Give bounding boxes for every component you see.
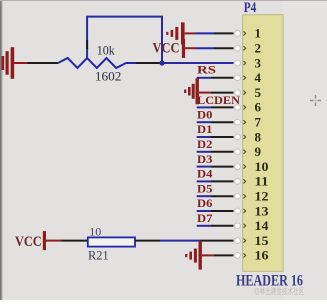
svg-text:12: 12 bbox=[255, 189, 269, 204]
svg-text:RS: RS bbox=[197, 65, 216, 77]
svg-text:P4: P4 bbox=[244, 0, 257, 16]
svg-text:5: 5 bbox=[255, 85, 262, 100]
svg-text:9: 9 bbox=[255, 144, 262, 159]
svg-text:LCDEN: LCDEN bbox=[197, 95, 241, 107]
svg-text:7: 7 bbox=[255, 115, 262, 130]
svg-text:10: 10 bbox=[255, 159, 269, 174]
svg-text:@林土建金技术社区: @林土建金技术社区 bbox=[254, 286, 304, 296]
svg-text:D0: D0 bbox=[197, 109, 213, 121]
svg-text:4: 4 bbox=[255, 70, 262, 85]
svg-text:D7: D7 bbox=[197, 213, 213, 225]
svg-text:VCC: VCC bbox=[153, 41, 180, 57]
svg-text:1602: 1602 bbox=[95, 69, 122, 84]
svg-text:10k: 10k bbox=[97, 44, 116, 58]
svg-text:D3: D3 bbox=[197, 154, 213, 166]
svg-text:8: 8 bbox=[255, 129, 262, 144]
svg-text:10: 10 bbox=[89, 224, 101, 238]
svg-text:3: 3 bbox=[255, 55, 262, 70]
svg-text:16: 16 bbox=[255, 248, 270, 263]
svg-text:15: 15 bbox=[255, 233, 270, 248]
svg-text:D6: D6 bbox=[197, 198, 213, 210]
svg-text:VCC: VCC bbox=[15, 234, 42, 250]
svg-text:D1: D1 bbox=[197, 124, 213, 136]
svg-text:6: 6 bbox=[255, 100, 262, 115]
svg-text:D5: D5 bbox=[197, 183, 213, 195]
svg-text:2: 2 bbox=[255, 41, 262, 56]
svg-text:14: 14 bbox=[255, 218, 270, 233]
svg-text:11: 11 bbox=[255, 174, 269, 189]
svg-text:D2: D2 bbox=[197, 139, 213, 151]
svg-text:13: 13 bbox=[255, 203, 270, 218]
svg-text:1: 1 bbox=[255, 26, 262, 41]
svg-text:D4: D4 bbox=[197, 169, 213, 181]
svg-text:R21: R21 bbox=[88, 248, 109, 263]
